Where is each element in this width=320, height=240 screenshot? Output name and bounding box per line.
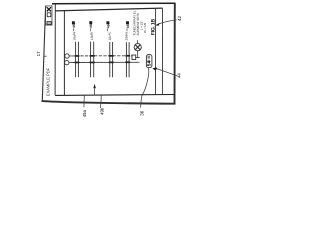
leader from pill to 36 <box>141 68 149 108</box>
border frame left <box>42 6 45 101</box>
svg-text:4c: 4c <box>108 31 112 35</box>
svg-text:42: 42 <box>177 15 182 21</box>
arrowhead 42 <box>156 23 160 26</box>
junction bars P1 <box>90 55 95 57</box>
svg-text:36: 36 <box>140 110 145 116</box>
tick above P1 <box>90 28 92 31</box>
figure label glyph 3 <box>47 22 51 25</box>
element pair P0 <box>76 42 79 78</box>
border frame right <box>174 3 176 104</box>
figure label glyph 2 <box>47 13 51 17</box>
wire ladder rail upper <box>71 55 132 57</box>
tick for label 17 <box>44 55 47 57</box>
junction bars P2 <box>109 55 114 57</box>
element pair P2 <box>110 42 113 77</box>
junction bars P3 <box>125 55 130 57</box>
terminal circle T1 <box>65 54 69 58</box>
stem above symbol <box>137 40 139 43</box>
symbol circled cross <box>134 44 141 51</box>
leader to 42 <box>157 20 176 25</box>
arrow under P1 <box>94 88 96 95</box>
arrowhead 44 <box>152 68 157 71</box>
tick terminal T2 <box>69 62 71 64</box>
inner bottom line <box>55 94 174 97</box>
border frame bottom <box>42 101 176 104</box>
svg-text:4b: 4b <box>89 31 93 35</box>
connector box <box>132 55 136 60</box>
svg-text:49a: 49a <box>82 110 87 118</box>
svg-text:49b: 49b <box>99 107 104 115</box>
dark dots of pair labels <box>72 21 75 24</box>
svg-text:44: 44 <box>177 73 182 78</box>
terminal circle T2 <box>65 60 69 64</box>
wire vertical C <box>155 8 157 94</box>
svg-text:EXAMPLE PDF: EXAMPLE PDF <box>45 67 50 96</box>
element pair P3 <box>126 42 129 77</box>
tick above P3 <box>126 28 128 31</box>
tick above P2 <box>107 28 109 31</box>
stem below symbol <box>137 51 139 58</box>
leader to 44 <box>155 68 178 76</box>
figure label X glyph <box>47 7 51 11</box>
tick above P0 <box>73 28 75 31</box>
svg-text:4d: 4d <box>124 31 128 35</box>
leader L1 <box>83 96 85 108</box>
wire vertical B <box>63 11 65 96</box>
figure label box <box>46 6 52 25</box>
leader L2 <box>99 95 102 108</box>
component pill 54 <box>146 55 152 68</box>
element pair P1 <box>91 42 94 78</box>
wire vertical D <box>161 8 163 94</box>
svg-text:17: 17 <box>36 51 41 57</box>
wire from connector <box>136 57 140 59</box>
svg-text:W = 1/8: W = 1/8 <box>143 23 147 33</box>
junction bars P0 <box>75 55 80 57</box>
wire vertical A <box>54 4 56 95</box>
svg-text:4a: 4a <box>72 31 76 35</box>
border frame top <box>52 2 176 5</box>
wire ladder rail lower <box>71 61 140 63</box>
wire top rail <box>55 8 162 11</box>
tick terminal T1 <box>69 55 71 57</box>
